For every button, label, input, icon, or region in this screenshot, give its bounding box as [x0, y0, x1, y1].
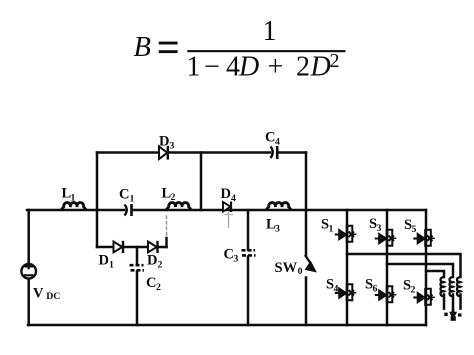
svg-text:4: 4 [275, 137, 280, 148]
wire: D1-D2 branch horizontal [97, 246, 167, 249]
diode D2 [148, 241, 158, 253]
svg-text:4: 4 [334, 284, 339, 295]
capacitor C2 [130, 265, 145, 270]
svg-text:1: 1 [71, 193, 76, 204]
switch S3 [375, 229, 397, 247]
wire: inverter leg B vertical [386, 210, 389, 325]
svg-text:1: 1 [329, 224, 334, 235]
wire: left source vertical upper [27, 210, 30, 263]
wire: left source vertical lower [27, 280, 30, 326]
svg-text:2: 2 [411, 285, 416, 296]
load terminal arrow 3 [458, 313, 462, 316]
svg-text:DC: DC [46, 291, 60, 302]
svg-text:5: 5 [412, 224, 417, 235]
switch SW0 [305, 255, 316, 272]
wire: phase B output bus [387, 264, 453, 277]
svg-text:1: 1 [263, 16, 277, 47]
wire: C3 branch lower [247, 257, 250, 326]
svg-text:V: V [33, 285, 44, 301]
svg-text:C: C [119, 187, 129, 203]
svg-text:6: 6 [373, 284, 378, 295]
wire: main rail left segment [27, 209, 124, 212]
svg-text:2: 2 [156, 282, 161, 293]
switch S2 [413, 288, 435, 306]
switch S1 [335, 225, 357, 243]
voltage source VDC [21, 263, 36, 278]
svg-text:D: D [221, 186, 231, 202]
load terminal arrow 1 [444, 313, 447, 316]
wire: vertical from top rail corner (x=306) upper [305, 153, 308, 257]
label D4 [221, 186, 237, 204]
label C3 [224, 247, 239, 265]
wire: D2 to L2 vertical dashed part [166, 216, 168, 238]
wire: vertical node after L1 (x=97) [96, 153, 99, 248]
label C2 [146, 275, 161, 293]
svg-text:3: 3 [170, 141, 175, 152]
capacitor C4 [271, 146, 278, 159]
wire: C2 branch upper [136, 247, 139, 264]
label S6 [365, 277, 378, 295]
svg-text:B: B [134, 32, 151, 63]
wire: main rail mid segment [133, 209, 426, 212]
wire: phase A output bus [347, 254, 461, 277]
inductor L3 [266, 203, 291, 210]
inductor L1 [61, 203, 86, 210]
label L2 [162, 186, 176, 204]
label L3 [266, 217, 280, 235]
switch S4 [335, 284, 357, 302]
wire: D2 to L2 vertical solid part [165, 238, 168, 247]
wire: C2 branch lower [136, 272, 139, 326]
formula B = 1/(1-4D+2D^2) [134, 16, 346, 83]
svg-text:D: D [159, 134, 169, 150]
label D1 [99, 253, 115, 271]
load coil phase 1 [441, 277, 444, 296]
load coil phase 3 [457, 277, 460, 296]
wire: top rail left segment [97, 151, 270, 154]
switch S6 [375, 286, 397, 304]
wire: vertical node after L2 (x=201) [200, 153, 203, 211]
switch S5 [413, 229, 435, 247]
label D2 [147, 253, 163, 271]
wire: load coil 2 bottom lead [452, 295, 455, 313]
diode D3 [159, 146, 168, 160]
load coil phase 2 [450, 277, 453, 296]
label C1 [119, 187, 135, 205]
label VDC [33, 285, 60, 302]
diode D1 [114, 241, 124, 253]
diode D4 [223, 202, 233, 229]
label L1 [62, 186, 76, 204]
label S3 [369, 216, 382, 234]
svg-text:D: D [99, 253, 109, 269]
svg-text:3: 3 [377, 223, 382, 234]
svg-text:4: 4 [231, 193, 236, 204]
wire: load coil 1 bottom lead [443, 295, 446, 309]
svg-text:0: 0 [298, 266, 303, 277]
wire: inverter leg A vertical [346, 210, 349, 325]
wire: top rail right segment [278, 151, 306, 154]
svg-text:2: 2 [158, 260, 163, 271]
wire: phase C output bus [426, 271, 444, 277]
svg-text:C: C [224, 247, 234, 263]
svg-text:2: 2 [171, 192, 176, 203]
label SW0 [275, 260, 303, 277]
capacitor C1 [125, 204, 132, 216]
label S5 [404, 217, 417, 235]
svg-text:3: 3 [275, 224, 280, 235]
svg-text:1: 1 [109, 260, 114, 271]
label C4 [265, 130, 280, 148]
svg-text:C: C [265, 130, 275, 146]
wire: inverter leg C vertical [425, 210, 428, 325]
svg-text:SW: SW [275, 260, 298, 276]
label S1 [321, 217, 334, 235]
capacitor C3 [242, 250, 256, 255]
label S4 [326, 277, 339, 295]
wire: SW0 branch lower vertical [305, 278, 308, 326]
svg-text:3: 3 [234, 254, 239, 265]
label D3 [159, 134, 175, 152]
load terminal arrow 2 [450, 309, 456, 321]
label S2 [403, 278, 416, 296]
svg-text:D: D [147, 253, 157, 269]
wire: bottom rail [28, 324, 426, 327]
svg-text:1−4D+2D2: 1−4D+2D2 [187, 50, 340, 83]
svg-text:C: C [146, 275, 156, 291]
wire: load coil 3 bottom lead [459, 295, 462, 309]
wire: C3 branch upper [247, 210, 250, 250]
svg-text:1: 1 [130, 194, 135, 205]
inductor L2 [166, 203, 191, 210]
